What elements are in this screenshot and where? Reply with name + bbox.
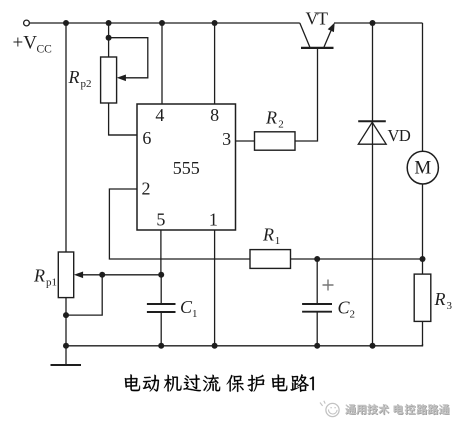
capacitor C2 polarized [302, 259, 333, 346]
svg-text:CC: CC [37, 44, 53, 56]
node bottom rail / VD [370, 343, 376, 349]
svg-text:2: 2 [278, 118, 284, 130]
pin 8 label [210, 105, 219, 125]
svg-text:5: 5 [156, 210, 165, 230]
wire bottom rail [66, 344, 423, 346]
label R1 [262, 224, 280, 247]
node Rp2 wiper feedback [106, 35, 112, 41]
terminal +Vcc [24, 20, 30, 26]
wire pin 4 branch [161, 23, 163, 104]
node top rail / Rp2 branch [106, 20, 112, 26]
node top rail / pin4 branch [159, 20, 165, 26]
wire top rail right (VT collector to motor branch) [334, 22, 423, 24]
node C1 top [158, 272, 164, 278]
wire Rp2 wiper feedback loop [109, 38, 148, 78]
wire Rp1 bottom to ground rail [65, 298, 67, 346]
node bottom rail / C2 [314, 343, 320, 349]
svg-text:R: R [68, 67, 80, 87]
wire pin 3 to R2 [236, 140, 255, 142]
svg-text:R: R [33, 266, 45, 286]
wire pin 6 stub [109, 134, 137, 136]
svg-text:M: M [414, 158, 431, 179]
watermark text 通用技术 电控路路通 [345, 404, 450, 415]
wire VD branch [372, 23, 374, 346]
svg-text:3: 3 [222, 129, 231, 149]
node bottom rail / C1 [158, 343, 164, 349]
resistor R2 [255, 132, 296, 150]
op-amp 555 timer U1 [137, 104, 236, 230]
caption 电动机过流保护 [125, 375, 264, 393]
wire R2 to VT base [295, 49, 318, 141]
wire pin 8 branch [214, 23, 216, 104]
label C2 [338, 297, 356, 320]
node bottom rail / pin1 [212, 343, 218, 349]
svg-text:R: R [265, 107, 277, 127]
wire motor to R3 node [422, 184, 424, 274]
node bottom rail / ground [63, 343, 69, 349]
capacitor C1 [147, 275, 176, 346]
pin 3 label [222, 129, 231, 149]
svg-text:3: 3 [447, 300, 453, 312]
node C2 top [314, 256, 320, 262]
wire Rp2 bottom to pin 6 [109, 103, 137, 135]
label C1 [180, 297, 198, 320]
wire wiper to C1 node [102, 274, 161, 276]
label VD [388, 126, 411, 145]
node top rail / pin8 branch [212, 20, 218, 26]
pin 5 label [156, 210, 165, 230]
node top rail / VD branch [370, 20, 376, 26]
pin 1 label [209, 210, 218, 230]
caption 电路1 [272, 374, 314, 392]
resistor R3 [414, 274, 431, 321]
potentiometer Rp1 [58, 252, 102, 298]
potentiometer Rp2 [101, 57, 126, 103]
svg-text:2: 2 [142, 179, 151, 199]
transistor VT [300, 23, 334, 48]
ground [51, 346, 82, 365]
svg-text:R: R [262, 224, 274, 244]
svg-text:R: R [434, 289, 446, 309]
svg-text:1: 1 [192, 308, 198, 320]
resistor R1 [250, 250, 291, 269]
diode VD [358, 121, 386, 144]
svg-text:8: 8 [210, 105, 219, 125]
wire R1 to motor branch [291, 258, 423, 260]
svg-text:1: 1 [209, 210, 218, 230]
label Rp2 [68, 67, 92, 90]
svg-text:p2: p2 [81, 78, 92, 90]
svg-text:2: 2 [350, 308, 356, 320]
node Rp1 bottom junction [63, 312, 69, 318]
label +Vcc [13, 33, 53, 56]
svg-text:1: 1 [275, 235, 281, 247]
wire motor branch upper [422, 23, 424, 152]
node Rp1 wiper junction [99, 272, 105, 278]
svg-text:VD: VD [388, 126, 411, 145]
svg-text:VT: VT [306, 9, 329, 29]
svg-text:555: 555 [173, 158, 200, 178]
pin 4 label [155, 105, 164, 125]
wire Rp2 branch from rail [108, 23, 110, 57]
wire pin 2 to R1 [109, 189, 250, 259]
wire pin 1 to bottom rail [214, 230, 216, 346]
pin 6 label [142, 128, 151, 148]
node R1 wire / motor branch [420, 256, 426, 262]
label R2 [265, 107, 284, 130]
motor M [407, 151, 438, 184]
node top rail / Rp1 branch [63, 20, 69, 26]
label R3 [434, 289, 453, 312]
wire top rail left (terminal to VT emitter) [30, 22, 300, 24]
watermark icon [320, 401, 339, 417]
label VT [306, 9, 329, 29]
wire R3 to bottom rail [422, 321, 424, 345]
wire pin 5 to C1 [160, 230, 162, 275]
wire left branch down to Rp1 [65, 23, 67, 252]
svg-text:+V: +V [13, 33, 38, 54]
svg-text:p1: p1 [46, 277, 57, 289]
pin 2 label [142, 179, 151, 199]
wire Rp1 wiper to bottom terminal [66, 275, 102, 315]
svg-text:4: 4 [155, 105, 164, 125]
label Rp1 [33, 266, 57, 289]
svg-text:6: 6 [142, 128, 151, 148]
